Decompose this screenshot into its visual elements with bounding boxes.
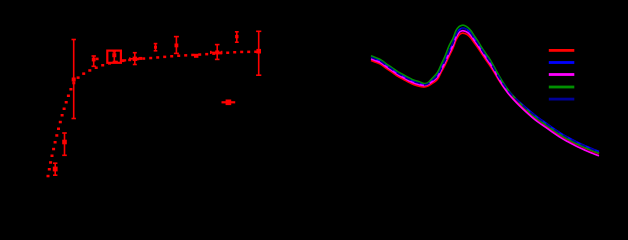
data point P11 with x-y error bars <box>211 45 222 60</box>
data point P10 with error bar <box>174 37 179 54</box>
data point P4 with error bar <box>92 56 96 66</box>
merged big dot on curve <box>194 54 198 58</box>
curve red (right plot) <box>371 33 599 153</box>
data point P3 with tall error bar <box>72 40 76 119</box>
curve navy dashed (right plot) <box>371 28 599 151</box>
legend line magenta <box>549 73 575 76</box>
horizontal stub right of box <box>122 59 126 61</box>
curve magenta (right plot) <box>371 31 599 156</box>
data point P8 with x-y error bars <box>130 53 139 65</box>
dotted theory curve (left plot) <box>47 51 258 178</box>
right cap dot of P8 <box>139 57 142 60</box>
legend line green <box>549 86 575 89</box>
small data point P9 with error bar <box>154 44 158 51</box>
small data point P4b <box>96 58 99 61</box>
data point P2 with error bar <box>62 133 67 155</box>
open square marker (systematic box) <box>107 51 121 63</box>
legend line blue <box>549 61 575 64</box>
curve green (right plot) <box>371 25 599 153</box>
data point P1 with error bar <box>53 163 58 175</box>
data point P6 inside box <box>112 52 116 62</box>
legend marker with horizontal bar (left plot) <box>222 100 236 106</box>
curve blue (right plot) <box>371 28 599 151</box>
legend line navy <box>549 98 575 101</box>
data point P12 with error bar <box>235 32 239 42</box>
legend line red <box>549 49 575 52</box>
data point P13 with tall error bar <box>256 31 261 75</box>
